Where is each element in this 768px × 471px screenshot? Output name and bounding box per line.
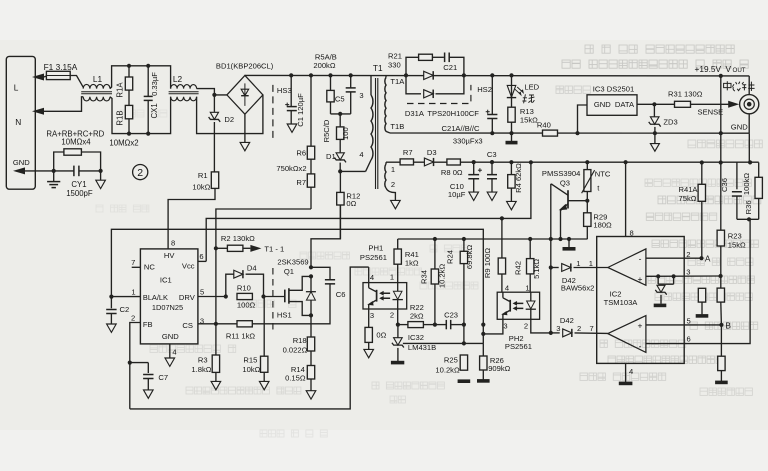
T1 aux winding <box>385 162 396 200</box>
inductor L1 bottom winding <box>83 97 110 101</box>
aux supply wire <box>386 161 759 163</box>
svg-text:R9 100Ω: R9 100Ω <box>483 248 492 278</box>
chassis arrow C2 <box>107 324 117 332</box>
wire R1 to HV pin8 <box>168 188 215 249</box>
node dot CX1 top <box>146 64 150 68</box>
PH1 box <box>363 283 407 309</box>
svg-text:4: 4 <box>172 347 176 356</box>
svg-text:HS3: HS3 <box>277 86 292 95</box>
resistor R25 <box>458 355 471 381</box>
node dot R24 mid <box>462 323 466 327</box>
fuse F1 <box>46 71 70 79</box>
PH2 box <box>497 292 539 319</box>
wire R7 to Vcc-CS vertical <box>216 209 311 381</box>
node dot C5 top <box>349 73 353 77</box>
T1 secondary winding <box>385 75 390 133</box>
svg-text:100: 100 <box>341 127 350 140</box>
resistor R41 <box>394 249 401 283</box>
resistor below A <box>696 288 709 316</box>
C36 R36 bottom wire <box>737 218 759 220</box>
svg-text:R41A: R41A <box>679 185 699 194</box>
svg-text:D3: D3 <box>427 148 437 157</box>
svg-text:0Ω: 0Ω <box>376 330 386 339</box>
svg-text:0Ω: 0Ω <box>346 199 356 208</box>
secondary ground rail wire <box>390 132 749 134</box>
svg-text:T1 - 1: T1 - 1 <box>264 244 284 253</box>
IC2 pin5 wire <box>646 324 722 326</box>
svg-text:D31A: D31A <box>405 109 425 118</box>
svg-text:GND: GND <box>731 122 748 131</box>
svg-text:C23: C23 <box>444 311 458 320</box>
gate wire <box>264 296 285 298</box>
svg-text:N: N <box>15 117 21 127</box>
wire N run <box>44 97 83 112</box>
IC1 pin1 stub <box>111 296 140 298</box>
svg-text:C7: C7 <box>158 373 168 382</box>
heatsink HS2 dashed line <box>407 85 471 104</box>
node dot B <box>719 323 723 327</box>
svg-text:1: 1 <box>131 287 135 296</box>
resistor R11 <box>216 321 311 327</box>
svg-text:CS: CS <box>182 321 193 330</box>
node dot R24 top <box>462 237 466 241</box>
resistor R41A <box>698 163 705 259</box>
node dot fb bus pin3 <box>481 332 485 336</box>
zener ZD3 <box>649 104 661 133</box>
node dot ref b <box>672 274 676 278</box>
node dot BLA junction <box>109 295 113 299</box>
node dot C21A top <box>490 73 494 77</box>
svg-text:GND: GND <box>594 100 611 109</box>
svg-text:PMSS3904: PMSS3904 <box>542 169 580 178</box>
heatsink HS1 dashed line <box>272 268 274 330</box>
bridge BD1 diamond <box>227 75 263 114</box>
inductor L2 bottom winding <box>171 97 197 101</box>
svg-text:750kΩx2: 750kΩx2 <box>276 164 306 173</box>
node dot D1 bottom <box>338 169 342 173</box>
resistor R15 branch <box>263 297 266 382</box>
Vcc supply wire <box>206 162 531 261</box>
svg-text:L1: L1 <box>93 74 103 84</box>
svg-text:DRV: DRV <box>179 293 196 302</box>
ground bar control rail <box>563 239 576 249</box>
svg-text:R1: R1 <box>198 171 208 180</box>
resistor below B <box>715 325 728 383</box>
IC2 box <box>597 237 685 364</box>
svg-text:C5: C5 <box>335 94 345 103</box>
svg-text:10kΩ: 10kΩ <box>192 182 210 191</box>
resistor R8 <box>447 159 461 165</box>
svg-text:3: 3 <box>503 322 507 331</box>
chassis arrow bridge minus <box>240 142 250 150</box>
svg-text:75kΩ: 75kΩ <box>679 194 697 203</box>
svg-text:10.2kΩ: 10.2kΩ <box>435 365 460 374</box>
chassis arrow at CY1 right <box>96 171 106 189</box>
resistor R5C/D <box>337 114 344 152</box>
svg-text:R25: R25 <box>444 355 458 364</box>
svg-text:5.1kΩ: 5.1kΩ <box>532 259 541 279</box>
svg-text:C2: C2 <box>120 305 130 314</box>
svg-text:2: 2 <box>686 250 690 259</box>
diode D42 lower <box>551 329 608 337</box>
svg-text:10.2kΩ: 10.2kΩ <box>437 264 446 289</box>
PH2 pin2 wire <box>531 319 551 333</box>
node dot R4 top <box>509 160 513 164</box>
resistor R18 <box>307 337 314 351</box>
svg-text:3: 3 <box>686 268 690 277</box>
PH2 led <box>526 292 536 319</box>
resistor R1A <box>125 66 132 134</box>
resistor R13 <box>508 107 515 122</box>
svg-text:Q1: Q1 <box>284 267 294 276</box>
node dot R1A bottom <box>127 132 131 136</box>
svg-text:1.8kΩ: 1.8kΩ <box>191 365 211 374</box>
inductor L1 top winding <box>83 84 110 88</box>
AC input terminal block <box>6 56 35 189</box>
capacitor CX1 <box>144 66 153 134</box>
node dot A <box>699 256 703 260</box>
IC2 pin3 wire <box>646 275 721 277</box>
svg-text:+: + <box>638 320 643 330</box>
node dot CS junction <box>214 322 218 326</box>
svg-text:PH1: PH1 <box>368 243 383 252</box>
svg-text:2: 2 <box>131 313 135 322</box>
node dot R23 gndline <box>719 131 723 135</box>
center pin chinese label <box>724 81 755 91</box>
svg-text:+19.5V: +19.5V <box>695 64 722 74</box>
svg-text:8: 8 <box>171 238 175 247</box>
svg-text:4: 4 <box>629 367 633 376</box>
svg-text:6: 6 <box>687 335 691 344</box>
output connector stub bottom <box>748 114 750 163</box>
IC2 pin2 wire <box>646 257 702 259</box>
resistor R26 <box>477 343 490 381</box>
svg-text:PS2561: PS2561 <box>505 342 532 351</box>
svg-text:HS2: HS2 <box>477 85 492 94</box>
arrow into N <box>32 108 44 115</box>
capacitor C6 <box>311 267 335 324</box>
node dot R6 top <box>309 73 313 77</box>
svg-text:R5C/D: R5C/D <box>322 119 331 142</box>
Q3 collector wire <box>550 184 552 268</box>
chassis arrow R4 <box>507 201 517 209</box>
svg-text:5: 5 <box>200 287 204 296</box>
svg-text:R40: R40 <box>537 120 551 129</box>
svg-text:-: - <box>639 341 642 351</box>
svg-text:R31 130Ω: R31 130Ω <box>668 90 703 99</box>
svg-text:1kΩ: 1kΩ <box>405 258 419 267</box>
Q3 base wire <box>568 200 587 202</box>
svg-text:10MΩx4: 10MΩx4 <box>61 138 91 147</box>
svg-text:R36: R36 <box>744 200 753 214</box>
wire R5-C5 join <box>331 113 351 115</box>
svg-text:NTC: NTC <box>595 169 611 178</box>
svg-text:T1A: T1A <box>390 77 405 86</box>
node dot R22 left <box>396 323 400 327</box>
transistor Q1 mosfet <box>285 276 311 315</box>
node dot C36R36 bottom <box>747 217 751 221</box>
svg-text:V: V <box>726 64 732 74</box>
resistor R5A/B <box>327 75 334 114</box>
node dot snubber join <box>338 112 342 116</box>
node dot rail gnd stub <box>567 237 571 241</box>
arrow into L <box>32 74 44 81</box>
circled 2 figure mark <box>133 165 148 180</box>
node dot CY1 right <box>99 169 103 173</box>
svg-text:1500pF: 1500pF <box>66 189 93 198</box>
resistor R23 <box>717 76 724 246</box>
capacitor C2 <box>106 297 116 324</box>
PH1 led <box>393 283 403 309</box>
resistor R1 <box>211 172 218 189</box>
node dot R5 top <box>328 73 332 77</box>
svg-text:HV: HV <box>164 251 175 260</box>
resistor R34 <box>431 239 438 325</box>
svg-text:3: 3 <box>556 324 560 333</box>
IC3 box <box>587 95 637 116</box>
resistor R3 <box>212 355 219 372</box>
svg-text:4: 4 <box>370 273 374 282</box>
svg-text:T1: T1 <box>373 63 383 73</box>
capacitor C3 <box>487 162 497 192</box>
PH2 light arrows <box>513 302 523 311</box>
node dot CX1 bottom <box>146 132 150 136</box>
node dot D2 top <box>212 93 216 97</box>
svg-text:NC: NC <box>144 263 155 272</box>
wire L1 to top node <box>110 66 171 89</box>
resistor R2 <box>216 245 251 251</box>
sense wire <box>654 103 674 105</box>
svg-text:ZD3: ZD3 <box>663 117 677 126</box>
IC2 opamp2 <box>608 316 646 353</box>
svg-text:L2: L2 <box>173 74 183 84</box>
svg-text:100Ω: 100Ω <box>237 301 256 310</box>
svg-text:C21A//B//C: C21A//B//C <box>442 124 480 133</box>
chassis arrow C3 <box>487 192 497 200</box>
svg-text:R6: R6 <box>296 148 306 157</box>
svg-text:PS2561: PS2561 <box>360 253 387 262</box>
capacitor C7 <box>130 363 154 390</box>
svg-text:GND: GND <box>13 158 30 167</box>
LED green chinese label <box>522 94 534 103</box>
ground bar at R13 <box>506 133 518 142</box>
capacitor C5 <box>346 75 356 114</box>
node dot DATA <box>652 102 656 106</box>
IC1 pin7 stub <box>132 266 141 268</box>
T1 core <box>376 78 378 189</box>
wire fuse to L1 <box>70 76 83 88</box>
wire GND run <box>25 170 101 172</box>
svg-text:2: 2 <box>577 324 581 333</box>
svg-text:LM431B: LM431B <box>408 343 436 352</box>
node dot NTC top <box>585 160 589 164</box>
svg-text:1: 1 <box>576 259 580 268</box>
svg-text:R21: R21 <box>388 52 402 61</box>
svg-text:C36: C36 <box>720 178 729 192</box>
capacitor C1 <box>285 75 297 124</box>
LED indicator <box>507 75 524 133</box>
heatsink HS3 dashed line <box>272 85 274 139</box>
svg-text:4: 4 <box>505 283 509 292</box>
svg-text:D4: D4 <box>247 264 257 273</box>
svg-text:OUT: OUT <box>733 67 746 74</box>
svg-text:TSM103A: TSM103A <box>604 298 639 307</box>
chassis arrow IC1 gnd <box>165 358 175 366</box>
chassis arrow PH1 pin3 <box>364 349 374 357</box>
svg-text:HS1: HS1 <box>277 310 292 319</box>
svg-text:R4 62kΩ: R4 62kΩ <box>514 163 523 193</box>
IC32 ref wire <box>403 342 483 344</box>
resistor R15 <box>261 356 268 372</box>
svg-text:C1 120µF: C1 120µF <box>296 93 305 127</box>
arrow to connector <box>728 101 739 108</box>
svg-text:6: 6 <box>199 252 203 261</box>
svg-text:Q3: Q3 <box>560 178 570 187</box>
node dot D42a anode <box>549 265 553 269</box>
resistor network RA+RB+RC+RD <box>54 149 101 171</box>
svg-text:1: 1 <box>589 259 593 268</box>
resistor R10 <box>237 293 252 299</box>
source wire <box>310 315 312 337</box>
chassis arrow C10 <box>469 192 479 200</box>
node dot D42b anode <box>549 331 553 335</box>
svg-text:15kΩ: 15kΩ <box>520 115 538 124</box>
svg-text:1: 1 <box>525 283 529 292</box>
node dot emitter rail <box>558 237 562 241</box>
capacitor C21A//B//C <box>486 75 498 133</box>
svg-text:C21: C21 <box>443 63 457 72</box>
svg-text:L: L <box>14 82 19 92</box>
svg-text:R34: R34 <box>420 270 429 284</box>
output connector <box>740 95 759 114</box>
svg-text:BAW56x2: BAW56x2 <box>561 283 594 292</box>
node dot C21A bottom <box>490 131 494 135</box>
svg-text:LED: LED <box>524 82 539 91</box>
svg-text:CY1: CY1 <box>71 180 86 189</box>
svg-text:-: - <box>639 253 642 263</box>
node dot gate node <box>261 294 265 298</box>
svg-text:C6: C6 <box>336 290 346 299</box>
inductor L2 top winding <box>171 85 197 89</box>
node dot Vcc rail top <box>529 160 533 164</box>
svg-text:R7: R7 <box>403 148 413 157</box>
node dot ref a <box>656 274 660 278</box>
svg-text:R10: R10 <box>237 283 251 292</box>
node dot C6 top <box>309 265 313 269</box>
node dot D31A anode <box>404 73 408 77</box>
IC1 pin6 wire <box>198 260 206 262</box>
svg-text:DATA: DATA <box>615 100 635 109</box>
svg-text:IC32: IC32 <box>408 333 424 342</box>
svg-text:10kΩ: 10kΩ <box>242 365 260 374</box>
PH1 pin2 wire <box>397 309 399 325</box>
resistor 0ohm PH1 <box>365 309 372 349</box>
svg-text:5: 5 <box>687 317 691 326</box>
wire primary return <box>340 170 365 172</box>
svg-text:GND: GND <box>162 332 179 341</box>
resistor R7 aux <box>400 159 413 165</box>
node dot source <box>309 313 313 317</box>
svg-text:R1A: R1A <box>116 82 125 98</box>
PH2 phototransistor <box>502 292 510 319</box>
svg-text:1: 1 <box>391 165 395 174</box>
diode D31A lower loop <box>406 75 464 98</box>
node dot fb bus mid <box>481 323 485 327</box>
T1 primary winding <box>366 75 373 171</box>
resistor R9 <box>498 218 505 292</box>
arrow into GND <box>13 167 25 174</box>
svg-text:909kΩ: 909kΩ <box>488 364 510 373</box>
svg-text:R5A/B: R5A/B <box>315 52 337 61</box>
svg-text:0.15Ω: 0.15Ω <box>285 374 306 383</box>
node dot C3 top <box>490 160 494 164</box>
Q1 drain wire <box>311 205 340 267</box>
chassis arrow ZD3 <box>650 133 659 151</box>
svg-text:4: 4 <box>359 150 363 159</box>
chassis arrow R15 <box>259 381 269 389</box>
node dot FB-C7 <box>128 361 132 365</box>
wire L2 bottom to bridge <box>197 95 263 134</box>
resistor R31 <box>675 101 729 107</box>
svg-text:2: 2 <box>524 322 528 331</box>
primary ground bus wire <box>130 267 369 409</box>
diode D4 branch <box>226 270 264 296</box>
resistor R12 <box>337 171 344 238</box>
node dot C1 <box>289 73 293 77</box>
control rail wire <box>398 239 588 249</box>
shunt reg IC32 <box>391 325 404 363</box>
bridge BD1 internal diode <box>241 83 249 106</box>
node dot D31A cathode <box>462 73 466 77</box>
svg-text:R24: R24 <box>445 250 454 264</box>
chassis arrow C7 <box>144 390 154 398</box>
node dot R42 top <box>528 237 532 241</box>
svg-text:Vcc: Vcc <box>182 262 195 271</box>
svg-text:C3: C3 <box>487 150 497 159</box>
svg-text:B: B <box>725 320 731 330</box>
svg-text:180Ω: 180Ω <box>593 221 612 230</box>
svg-text:R2 130kΩ: R2 130kΩ <box>221 234 255 243</box>
svg-text:15kΩ: 15kΩ <box>728 240 746 249</box>
resistor below pin3 <box>717 276 724 325</box>
resistor R40 <box>543 130 558 136</box>
PH1 light arrows <box>380 291 390 300</box>
svg-text:8: 8 <box>630 228 634 237</box>
svg-text:IC2: IC2 <box>610 289 622 298</box>
resistor R1B <box>125 105 132 118</box>
IC3 data wire <box>637 103 654 105</box>
PH1 phototransistor <box>368 283 376 309</box>
svg-text:2kΩ: 2kΩ <box>410 311 424 320</box>
diode D1 <box>334 153 346 172</box>
IC2 pin4 wire <box>619 363 633 383</box>
snubber loop R21 C21 <box>406 53 464 76</box>
svg-text:D42: D42 <box>560 316 574 325</box>
R23 to pin3 wire <box>720 246 722 276</box>
svg-text:2SK3569: 2SK3569 <box>277 257 308 266</box>
node dot DRV left <box>224 294 228 298</box>
svg-text:FB: FB <box>143 320 153 329</box>
IC1 pin2 wire <box>130 323 141 409</box>
node dot R1A top <box>127 64 131 68</box>
svg-text:SENSE: SENSE <box>698 107 724 116</box>
svg-text:A: A <box>705 253 711 263</box>
svg-text:R18: R18 <box>293 336 307 345</box>
svg-text:1: 1 <box>390 272 394 281</box>
node dot Q3 base <box>585 199 589 203</box>
svg-text:R14: R14 <box>291 365 305 374</box>
svg-text:BLA/LK: BLA/LK <box>143 293 168 302</box>
